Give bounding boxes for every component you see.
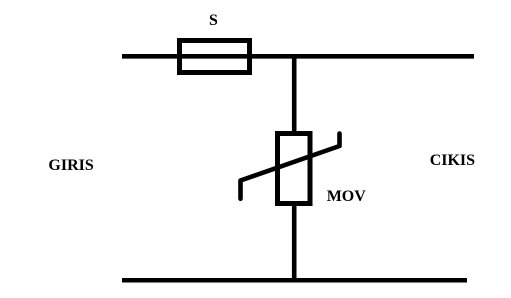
fuse S body bbox=[180, 41, 250, 73]
wire: MOV down to bottom rail bbox=[292, 204, 297, 282]
varistor MOV diagonal stroke bbox=[241, 134, 340, 199]
bottom wire (return rail) bbox=[122, 278, 467, 283]
top wire (input to output rail) bbox=[122, 54, 474, 59]
wire: top rail junction down to MOV bbox=[292, 56, 297, 133]
svg-text:S: S bbox=[209, 12, 218, 29]
svg-text:MOV: MOV bbox=[327, 188, 367, 205]
svg-text:GIRIS: GIRIS bbox=[48, 157, 93, 174]
varistor MOV body bbox=[278, 134, 311, 204]
svg-text:CIKIS: CIKIS bbox=[430, 152, 475, 169]
